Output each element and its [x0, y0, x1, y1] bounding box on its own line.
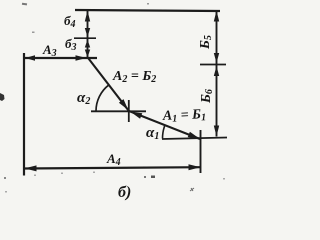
angle arc alpha2	[96, 85, 109, 111]
arrowhead A1 at node J2	[131, 112, 143, 119]
speck under dim line a	[34, 175, 36, 177]
wire tick between B5 and B6	[200, 64, 226, 66]
angle arc alpha1	[162, 124, 165, 138]
speck top-left dash	[22, 3, 27, 6]
arrowhead right bottom down	[214, 126, 219, 137]
arrowhead b4 top up	[85, 11, 90, 22]
speck under dim line c	[93, 172, 95, 174]
wire right dimension line B5-B6 vertical	[216, 11, 218, 137]
arrowhead right middle up	[214, 66, 219, 76]
arrowhead b4 bottom down	[85, 28, 90, 37]
wire bottom dimension line A4	[24, 167, 201, 168]
arrowhead right middle down	[214, 53, 219, 63]
wire A2 chord diagonal	[89, 59, 129, 111]
svg-text:б): б)	[118, 184, 131, 201]
arrowhead A3 left	[25, 55, 35, 60]
speck top center	[147, 3, 149, 5]
svg-text:А1 = Б1: А1 = Б1	[162, 107, 207, 125]
arrowhead right top up	[214, 11, 219, 22]
wire vertical tick at node J2	[128, 100, 130, 122]
speck under dim line b	[61, 173, 63, 175]
wire horizontal reference at corner node	[162, 138, 227, 140]
wire tick between b4 and b3	[74, 37, 96, 39]
wire left vertical edge	[23, 53, 25, 176]
speck under bottom line 1	[144, 176, 146, 178]
wire A1 chord diagonal	[129, 111, 200, 139]
speck left edge blob	[0, 93, 5, 101]
arrowhead bottom-left	[25, 165, 37, 171]
speck small dot	[32, 32, 35, 34]
arrowhead A2 at node J2	[119, 99, 128, 110]
svg-text:А2 = Б2: А2 = Б2	[112, 69, 156, 85]
wire horizontal reference at node J2	[91, 110, 146, 112]
arrowhead A3 right	[76, 55, 87, 60]
speck near left bottom	[4, 177, 6, 179]
wire top horizontal edge	[75, 10, 220, 11]
speck under bottom line 2	[151, 176, 155, 179]
speck bottom left faint	[5, 191, 7, 193]
wire vertical tick at corner node	[200, 130, 202, 173]
arrowhead b3 bottom down	[85, 50, 90, 58]
arrowhead b3 top up	[85, 40, 90, 48]
wire dimension line b4-b3 vertical	[87, 11, 89, 58]
wire A3 horizontal dimension line	[24, 57, 97, 59]
arrowhead bottom-right	[189, 164, 201, 170]
arrowhead A1 at corner node	[188, 132, 200, 139]
speck right of caption	[190, 188, 194, 191]
speck far right	[223, 178, 225, 180]
